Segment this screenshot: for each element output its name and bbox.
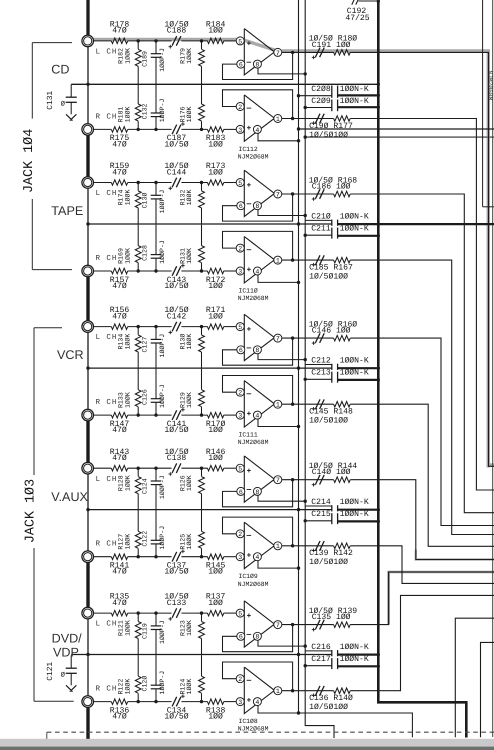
svg-text:1ØØK: 1ØØK: [186, 392, 193, 408]
svg-text:C14Ø 1ØØ: C14Ø 1ØØ: [312, 468, 351, 477]
svg-text:6: 6: [239, 347, 243, 354]
svg-text:1ØØ: 1ØØ: [208, 312, 223, 321]
svg-text:C146 1ØØ: C146 1ØØ: [312, 327, 351, 336]
svg-text:1ØØP-J: 1ØØP-J: [159, 384, 166, 408]
svg-text:R181: R181: [117, 106, 124, 122]
svg-text:R CH: R CH: [96, 112, 118, 121]
svg-text:1: 1: [276, 688, 280, 695]
svg-text:C131: C131: [46, 91, 55, 110]
svg-text:NJM2Ø68M: NJM2Ø68M: [238, 295, 269, 302]
svg-text:L CH: L CH: [96, 333, 118, 342]
svg-text:C21Ø: C21Ø: [311, 212, 331, 221]
svg-text:2: 2: [238, 531, 242, 538]
svg-text:8: 8: [255, 347, 259, 354]
svg-text:C2Ø8: C2Ø8: [311, 85, 331, 94]
svg-text:C191 1ØØ: C191 1ØØ: [312, 41, 351, 50]
svg-text:1ØØN-K: 1ØØN-K: [340, 655, 369, 664]
svg-text:1ØØP-J: 1ØØP-J: [159, 475, 166, 499]
svg-text:1ØØK: 1ØØK: [125, 334, 132, 350]
svg-text:47Ø: 47Ø: [112, 568, 127, 577]
svg-text:3: 3: [238, 554, 242, 561]
svg-text:JACK 1Ø3: JACK 1Ø3: [24, 479, 39, 543]
svg-text:V.AUX: V.AUX: [51, 490, 88, 504]
svg-text:47Ø: 47Ø: [112, 312, 127, 321]
svg-text:47Ø: 47Ø: [112, 168, 127, 177]
svg-text:1Ø/5Ø: 1Ø/5Ø: [164, 713, 188, 722]
svg-text:1: 1: [276, 116, 280, 123]
svg-text:1ØØK: 1ØØK: [125, 392, 132, 408]
svg-text:C188: C188: [167, 27, 187, 36]
svg-text:L CH: L CH: [96, 48, 118, 57]
svg-text:5: 5: [238, 180, 242, 187]
svg-text:C119: C119: [141, 623, 148, 639]
svg-text:5: 5: [238, 611, 242, 618]
svg-text:NJM2Ø68M: NJM2Ø68M: [487, 71, 494, 101]
svg-text:NJM2Ø68M: NJM2Ø68M: [238, 581, 269, 588]
svg-text:8: 8: [255, 634, 259, 641]
svg-text:NJM2Ø68M: NJM2Ø68M: [238, 439, 269, 446]
svg-text:R CH: R CH: [96, 685, 118, 694]
svg-text:IC1Ø8: IC1Ø8: [239, 718, 258, 725]
svg-text:C212: C212: [311, 356, 331, 365]
svg-text:47Ø: 47Ø: [112, 140, 127, 149]
svg-text:VCR: VCR: [57, 348, 84, 362]
svg-text:1ØØ: 1ØØ: [208, 454, 223, 463]
svg-text:C121: C121: [46, 662, 55, 681]
svg-text:5: 5: [238, 324, 242, 331]
svg-text:CD: CD: [51, 63, 69, 77]
svg-text:3: 3: [238, 127, 242, 134]
svg-text:C127: C127: [141, 337, 148, 353]
svg-text:L CH: L CH: [96, 475, 118, 484]
svg-text:6: 6: [239, 62, 243, 69]
svg-text:1ØØK: 1ØØK: [186, 190, 193, 206]
svg-text:C216: C216: [311, 643, 331, 652]
svg-text:6: 6: [239, 634, 243, 641]
svg-text:7: 7: [276, 477, 280, 484]
svg-text:C145 R148: C145 R148: [309, 408, 353, 417]
svg-text:6: 6: [239, 203, 243, 210]
svg-text:1ØØP-J: 1ØØP-J: [159, 620, 166, 644]
svg-text:1ØØP-J: 1ØØP-J: [159, 334, 166, 358]
svg-text:C132: C132: [141, 103, 148, 119]
svg-text:1ØØK: 1ØØK: [125, 106, 132, 122]
svg-text:1Ø/5Ø: 1Ø/5Ø: [164, 426, 188, 435]
svg-text:5: 5: [238, 466, 242, 473]
svg-text:R174: R174: [117, 190, 124, 206]
svg-text:1: 1: [276, 402, 280, 409]
svg-text:1ØØK: 1ØØK: [186, 334, 193, 350]
svg-text:1ØØP-J: 1ØØP-J: [159, 98, 166, 122]
svg-text:1ØØK: 1ØØK: [186, 106, 193, 122]
svg-text:1ØØN-K: 1ØØN-K: [340, 498, 369, 507]
svg-text:2: 2: [238, 390, 242, 397]
svg-text:C144: C144: [167, 168, 187, 177]
svg-text:L CH: L CH: [96, 189, 118, 198]
svg-text:1ØØK: 1ØØK: [125, 190, 132, 206]
svg-text:C211: C211: [311, 224, 331, 233]
svg-text:1Ø/5Ø1ØØ: 1Ø/5Ø1ØØ: [309, 273, 348, 282]
svg-text:7: 7: [276, 50, 280, 57]
svg-text:1ØØN-K: 1ØØN-K: [340, 85, 369, 94]
svg-text:1ØØK: 1ØØK: [186, 248, 193, 264]
svg-text:7: 7: [276, 191, 280, 198]
svg-text:47Ø: 47Ø: [112, 27, 127, 36]
svg-text:1Ø/5Ø1ØØ: 1Ø/5Ø1ØØ: [309, 558, 348, 567]
svg-text:TAPE: TAPE: [51, 204, 83, 218]
svg-text:1ØØK: 1ØØK: [186, 475, 193, 491]
svg-text:3: 3: [238, 699, 242, 706]
svg-text:C138: C138: [167, 454, 187, 463]
svg-text:C139 R142: C139 R142: [309, 549, 353, 558]
svg-text:4: 4: [255, 554, 259, 561]
svg-text:1ØØ: 1ØØ: [208, 599, 223, 608]
svg-text:C186 1ØØ: C186 1ØØ: [312, 182, 351, 191]
svg-text:R134: R134: [117, 334, 124, 350]
svg-text:1ØØK: 1ØØK: [186, 48, 193, 64]
svg-text:NJM2Ø68M: NJM2Ø68M: [238, 154, 269, 161]
svg-text:1ØØK: 1ØØK: [125, 534, 132, 550]
svg-text:R CH: R CH: [96, 254, 118, 263]
svg-text:C135 1ØØ: C135 1ØØ: [312, 613, 351, 622]
svg-text:1ØØK: 1ØØK: [125, 620, 132, 636]
svg-text:IC1Ø9: IC1Ø9: [239, 573, 258, 580]
svg-text:47Ø: 47Ø: [112, 282, 127, 291]
svg-text:C133: C133: [167, 599, 187, 608]
svg-text:R122: R122: [117, 679, 124, 695]
svg-text:1ØØK: 1ØØK: [125, 475, 132, 491]
svg-text:4: 4: [255, 413, 259, 420]
svg-text:R182: R182: [117, 48, 124, 64]
svg-text:8: 8: [255, 203, 259, 210]
svg-text:1ØØN-K: 1ØØN-K: [340, 356, 369, 365]
svg-text:C213: C213: [311, 368, 331, 377]
svg-text:47Ø: 47Ø: [112, 599, 127, 608]
svg-text:3: 3: [238, 268, 242, 275]
svg-text:6: 6: [239, 489, 243, 496]
svg-text:IC111: IC111: [239, 432, 258, 439]
svg-text:R127: R127: [117, 534, 124, 550]
svg-text:1ØØP-J: 1ØØP-J: [159, 48, 166, 72]
svg-text:L CH: L CH: [96, 620, 118, 629]
svg-text:1ØØN-K: 1ØØN-K: [340, 97, 369, 106]
svg-text:1ØØK: 1ØØK: [186, 620, 193, 636]
svg-text:R169: R169: [117, 248, 124, 264]
svg-text:1Ø/5Ø1ØØ: 1Ø/5Ø1ØØ: [309, 131, 348, 140]
svg-text:1ØØN-K: 1ØØN-K: [340, 510, 369, 519]
svg-text:47Ø: 47Ø: [112, 426, 127, 435]
svg-text:7: 7: [276, 336, 280, 343]
svg-text:C136 R14Ø: C136 R14Ø: [309, 694, 353, 703]
svg-text:C122: C122: [141, 531, 148, 547]
svg-text:1ØØ: 1ØØ: [208, 282, 223, 291]
svg-text:1ØØN-K: 1ØØN-K: [340, 212, 369, 221]
svg-text:2: 2: [238, 246, 242, 253]
svg-text:1ØØ: 1ØØ: [208, 140, 223, 149]
svg-text:1Ø/5Ø1ØØ: 1Ø/5Ø1ØØ: [309, 703, 348, 712]
svg-text:7: 7: [276, 622, 280, 629]
svg-text:C189: C189: [141, 51, 148, 67]
svg-text:1ØØ: 1ØØ: [208, 168, 223, 177]
svg-text:1: 1: [276, 543, 280, 550]
svg-text:1ØØK: 1ØØK: [186, 679, 193, 695]
svg-text:1ØØK: 1ØØK: [125, 48, 132, 64]
svg-text:8: 8: [255, 489, 259, 496]
svg-text:R CH: R CH: [96, 540, 118, 549]
svg-text:C126: C126: [141, 389, 148, 405]
svg-text:1ØØ: 1ØØ: [208, 426, 223, 435]
svg-text:IC112: IC112: [239, 146, 258, 153]
svg-text:Ø: Ø: [61, 101, 65, 109]
svg-text:2: 2: [238, 676, 242, 683]
svg-text:5: 5: [238, 38, 242, 45]
svg-text:C185 R167: C185 R167: [309, 263, 353, 272]
svg-text:C19Ø R177: C19Ø R177: [309, 122, 353, 131]
svg-text:C2Ø9: C2Ø9: [311, 97, 331, 106]
svg-text:4: 4: [255, 127, 259, 134]
svg-text:1Ø/5Ø1ØØ: 1Ø/5Ø1ØØ: [309, 417, 348, 426]
svg-text:1ØØK: 1ØØK: [186, 534, 193, 550]
svg-text:1ØØN-K: 1ØØN-K: [340, 224, 369, 233]
svg-text:1Ø/5Ø: 1Ø/5Ø: [164, 568, 188, 577]
svg-text:C215: C215: [311, 510, 331, 519]
svg-text:JACK 1Ø4: JACK 1Ø4: [22, 129, 37, 193]
svg-text:Ø: Ø: [61, 672, 65, 680]
svg-text:1ØØN-K: 1ØØN-K: [340, 368, 369, 377]
svg-text:IC11Ø: IC11Ø: [239, 288, 258, 295]
svg-text:1ØØP-J: 1ØØP-J: [159, 240, 166, 264]
svg-text:4: 4: [255, 699, 259, 706]
svg-text:C128: C128: [141, 245, 148, 261]
svg-text:1ØØ: 1ØØ: [208, 568, 223, 577]
svg-text:C142: C142: [167, 312, 187, 321]
svg-text:8: 8: [255, 62, 259, 69]
svg-text:C217: C217: [311, 655, 331, 664]
svg-text:47Ø: 47Ø: [112, 713, 127, 722]
svg-text:DVD/: DVD/: [52, 631, 83, 645]
svg-text:47/25: 47/25: [345, 14, 369, 23]
svg-text:1ØØP-J: 1ØØP-J: [159, 671, 166, 695]
svg-text:47Ø: 47Ø: [112, 454, 127, 463]
svg-text:3: 3: [238, 413, 242, 420]
svg-text:2: 2: [238, 104, 242, 111]
svg-text:1ØØP-J: 1ØØP-J: [159, 190, 166, 214]
svg-text:C13Ø: C13Ø: [141, 193, 148, 209]
svg-text:1Ø/5Ø: 1Ø/5Ø: [164, 282, 188, 291]
svg-text:1ØØ: 1ØØ: [208, 27, 223, 36]
svg-text:1ØØK: 1ØØK: [125, 248, 132, 264]
svg-text:1ØØP-J: 1ØØP-J: [159, 526, 166, 550]
svg-text:1Ø/5Ø: 1Ø/5Ø: [164, 140, 188, 149]
svg-text:1ØØK: 1ØØK: [125, 679, 132, 695]
svg-text:C124: C124: [141, 478, 148, 494]
svg-text:1: 1: [276, 258, 280, 265]
svg-text:R128: R128: [117, 475, 124, 491]
svg-text:R133: R133: [117, 392, 124, 408]
svg-text:VDP: VDP: [53, 646, 79, 660]
svg-text:C12Ø: C12Ø: [141, 676, 148, 692]
svg-text:R121: R121: [117, 620, 124, 636]
svg-text:1ØØ: 1ØØ: [208, 713, 223, 722]
svg-text:R CH: R CH: [96, 398, 118, 407]
svg-text:1ØØN-K: 1ØØN-K: [340, 643, 369, 652]
svg-text:C214: C214: [311, 498, 331, 507]
svg-text:4: 4: [255, 268, 259, 275]
